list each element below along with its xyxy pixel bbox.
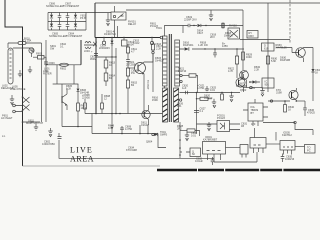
resistor R623 bbox=[221, 92, 224, 100]
regulator IC601 bbox=[203, 135, 226, 162]
svg-text:R602: R602 bbox=[60, 67, 67, 71]
diode D601 bbox=[50, 13, 53, 22]
capacitor C608 bbox=[82, 93, 90, 114]
wire AC line input step bbox=[5, 0, 23, 38]
svg-text:PK B: PK B bbox=[80, 16, 86, 20]
wire primary filter rail bbox=[95, 38, 97, 114]
label note bbox=[2, 134, 6, 138]
svg-text:164K: 164K bbox=[246, 55, 252, 59]
relay RY601 bbox=[111, 12, 136, 26]
ground cold bbox=[185, 131, 198, 141]
ground left A bbox=[18, 70, 22, 77]
capacitor C604a bbox=[58, 13, 62, 22]
svg-text:4.7: 4.7 bbox=[131, 50, 135, 54]
svg-text:SMPS: SMPS bbox=[160, 133, 168, 137]
svg-text:KTC3198: KTC3198 bbox=[126, 148, 137, 152]
svg-text:2KV: 2KV bbox=[210, 35, 215, 39]
label C634 bbox=[126, 146, 137, 153]
svg-text:1N4007x4: 1N4007x4 bbox=[104, 32, 116, 36]
svg-text:0.022: 0.022 bbox=[133, 41, 140, 45]
svg-text:0.01uF: 0.01uF bbox=[195, 159, 203, 163]
svg-text:FILTER: FILTER bbox=[43, 72, 52, 76]
wire live aux rail bbox=[45, 40, 47, 122]
svg-text:0.01: 0.01 bbox=[191, 134, 197, 138]
svg-text:470: 470 bbox=[251, 122, 256, 126]
resistor R617 bbox=[151, 42, 162, 51]
node standby out bbox=[243, 86, 252, 88]
wire photocoupler leads bbox=[197, 124, 241, 130]
svg-text:220/400V: 220/400V bbox=[99, 46, 110, 50]
svg-text:TO PREVENT: TO PREVENT bbox=[66, 34, 83, 38]
diode D604 bbox=[74, 22, 77, 31]
label R618 bbox=[198, 41, 208, 50]
wire left live rail bbox=[22, 38, 24, 166]
svg-text:0.01: 0.01 bbox=[210, 88, 216, 92]
svg-text:220/50: 220/50 bbox=[82, 96, 90, 100]
svg-text:PC123: PC123 bbox=[217, 116, 225, 120]
svg-text:RGP10G: RGP10G bbox=[183, 43, 193, 47]
capacitor C632 bbox=[195, 157, 214, 166]
box relay control bbox=[247, 31, 258, 39]
capacitor C604b bbox=[66, 13, 70, 22]
svg-text:2SC5587: 2SC5587 bbox=[126, 63, 137, 67]
label D601-604 bbox=[104, 30, 116, 37]
regulator IC604 bbox=[250, 128, 266, 153]
label T601 bbox=[156, 26, 162, 30]
svg-text:2.2K: 2.2K bbox=[156, 47, 162, 51]
svg-text:RY602: RY602 bbox=[229, 24, 237, 28]
resistor R614 bbox=[104, 71, 115, 86]
svg-text:L1.: L1. bbox=[2, 134, 6, 138]
ground C625 bbox=[205, 86, 217, 93]
svg-text:PG: PG bbox=[131, 71, 135, 75]
svg-text:1N4148: 1N4148 bbox=[80, 91, 90, 95]
wire snubber lower bbox=[91, 114, 93, 134]
label IC605 bbox=[282, 131, 292, 138]
choke L604 bbox=[84, 42, 93, 54]
capacitor C605b bbox=[66, 22, 70, 31]
wire 16V rail bbox=[179, 92, 240, 94]
capacitor C603 bbox=[44, 57, 55, 66]
resistor R612 bbox=[126, 68, 137, 80]
label C631 bbox=[241, 122, 248, 129]
wire filter riser bbox=[80, 40, 82, 65]
svg-text:470/25: 470/25 bbox=[307, 111, 315, 115]
wire top border line bbox=[95, 2, 320, 4]
svg-text:NOISE KILLER: NOISE KILLER bbox=[49, 34, 67, 38]
thermistor TH601 bbox=[29, 48, 34, 57]
label Q609 bbox=[276, 88, 282, 95]
transistor Q607 bbox=[236, 71, 248, 89]
text LIVE AREA bbox=[70, 146, 94, 164]
wire error amp riser bbox=[196, 93, 198, 134]
svg-text:1B: 1B bbox=[241, 124, 244, 128]
node isolation boundary dashed bbox=[289, 0, 291, 44]
svg-text:AREA: AREA bbox=[70, 155, 94, 164]
resistor R626 bbox=[196, 97, 212, 100]
capacitor C610 bbox=[60, 42, 67, 49]
svg-text:1uF: 1uF bbox=[182, 86, 187, 90]
wire Q609 emitter bbox=[296, 100, 306, 102]
label D620 bbox=[204, 94, 213, 101]
svg-text:EGP10: EGP10 bbox=[178, 69, 187, 73]
wire right rail bbox=[242, 40, 244, 71]
resistor R608 bbox=[101, 94, 111, 114]
svg-text:TO PREVENT: TO PREVENT bbox=[63, 4, 80, 8]
diode D613 bbox=[152, 133, 158, 136]
wire aux rail B bbox=[115, 48, 117, 114]
switch S602 interlock bbox=[93, 42, 97, 46]
degaussing coil L602 bbox=[1, 48, 14, 90]
svg-text:LINE CHOKE: LINE CHOKE bbox=[10, 87, 26, 91]
capacitor C609 bbox=[120, 125, 132, 134]
wire snubber drop bbox=[182, 26, 184, 34]
label S601 bbox=[26, 119, 43, 126]
wire interlock bbox=[22, 121, 40, 123]
svg-text:4.7/50: 4.7/50 bbox=[197, 86, 205, 90]
inductor L603 bbox=[46, 63, 81, 70]
wire bridge rail mid bbox=[48, 21, 86, 23]
capacitor C612 bbox=[122, 37, 135, 47]
transformer T601 core bbox=[169, 34, 171, 122]
connector P601 bbox=[1, 104, 23, 120]
wire chopper emitter bbox=[143, 78, 145, 114]
label C605 bbox=[49, 32, 67, 39]
wire hot rail from top border bbox=[94, 3, 96, 38]
diode D603 bbox=[50, 22, 53, 31]
diode D605 bbox=[111, 37, 114, 46]
resistor R622 bbox=[228, 48, 239, 78]
label R616 bbox=[152, 96, 159, 103]
svg-text:Q602: Q602 bbox=[240, 88, 247, 92]
svg-text:5.6K: 5.6K bbox=[271, 59, 277, 63]
label C618 bbox=[210, 33, 217, 40]
transistor Q608 bbox=[276, 48, 313, 63]
transistor Q602 bbox=[236, 74, 247, 92]
wire IC601 output bbox=[226, 147, 241, 149]
svg-text:1K: 1K bbox=[315, 71, 318, 75]
resistor R611 bbox=[126, 44, 137, 59]
svg-text:SW: SW bbox=[50, 47, 55, 51]
svg-text:619: 619 bbox=[264, 47, 269, 51]
svg-text:RGP10B: RGP10B bbox=[280, 58, 290, 62]
wire IC603 drop bbox=[256, 152, 258, 162]
wire chopper base bbox=[128, 67, 135, 69]
ground input bbox=[10, 95, 14, 105]
regulator IC602S bbox=[262, 43, 288, 51]
connector P602 bbox=[295, 145, 315, 154]
svg-text:0.0047/250: 0.0047/250 bbox=[42, 142, 55, 146]
transformer T601 secondary winding bbox=[175, 40, 180, 86]
label R632 bbox=[254, 65, 261, 72]
resistor R609 bbox=[108, 114, 115, 134]
resistor R619 bbox=[222, 23, 224, 29]
transformer T601 primary winding bbox=[163, 26, 184, 89]
fuse F601 bbox=[8, 36, 42, 44]
label C604 bbox=[66, 32, 83, 39]
resistor R630 bbox=[266, 56, 277, 64]
diode D614 bbox=[198, 24, 244, 27]
svg-text:Q604: Q604 bbox=[146, 140, 153, 144]
svg-text:C603: C603 bbox=[49, 61, 56, 65]
wire drain riser bbox=[146, 54, 153, 92]
svg-text:C2120: C2120 bbox=[141, 123, 149, 127]
capacitor C615 bbox=[133, 37, 162, 46]
regulator IC603 bbox=[240, 145, 248, 158]
ground secondary bbox=[229, 92, 233, 102]
wire degauss loop top bbox=[8, 43, 33, 52]
node secondary taps bbox=[178, 67, 187, 83]
svg-text:150K: 150K bbox=[152, 98, 158, 102]
wire bridge right vertical bbox=[85, 13, 87, 31]
wire bottom scan border thick dashed bbox=[157, 169, 320, 172]
label Q604 bbox=[146, 140, 153, 144]
svg-text:L604: L604 bbox=[84, 49, 90, 53]
wire branch legs bbox=[140, 125, 148, 134]
wire cold ground return under AREA bbox=[59, 140, 214, 158]
label SW601 bbox=[50, 44, 57, 51]
ground mid bbox=[34, 124, 38, 130]
capacitor C627 bbox=[194, 107, 206, 114]
wire 9v line bbox=[268, 100, 290, 102]
capacitor C618 bbox=[213, 48, 217, 57]
label C607 bbox=[63, 2, 80, 9]
photocoupler PC601 bbox=[217, 114, 230, 132]
wire secondary B+ line bbox=[179, 48, 244, 50]
svg-text:2200P 2KV: 2200P 2KV bbox=[184, 18, 197, 22]
label B+ output bbox=[222, 42, 228, 49]
wire aux rail A bbox=[111, 38, 113, 114]
box error detect bbox=[262, 78, 274, 88]
wire neutral rail bbox=[41, 43, 43, 122]
resistor R640 bbox=[284, 101, 295, 112]
regulator IC602 bbox=[243, 99, 268, 126]
wire standby rail bbox=[267, 3, 269, 92]
switch S601 poles bbox=[22, 96, 30, 111]
wire bridge rail bottom bbox=[48, 29, 86, 31]
label T601 flyback bbox=[160, 130, 168, 137]
node drive terminal bbox=[152, 51, 165, 62]
svg-text:C617: C617 bbox=[197, 31, 204, 35]
wire control drop bbox=[158, 134, 166, 148]
svg-text:1N4937: 1N4937 bbox=[224, 34, 234, 38]
svg-text:4.7K: 4.7K bbox=[228, 69, 234, 73]
svg-text:0.1: 0.1 bbox=[60, 45, 64, 49]
label Y601 bbox=[80, 14, 87, 21]
label D614 bbox=[197, 29, 204, 36]
capacitor C614 bbox=[91, 44, 110, 56]
svg-text:2.2K: 2.2K bbox=[254, 68, 260, 72]
wire bridge left vertical bbox=[47, 13, 49, 31]
capacitor C636 bbox=[303, 101, 315, 116]
label C621 bbox=[196, 84, 205, 94]
resistor R607 bbox=[77, 103, 88, 127]
wire aux rail C bbox=[127, 44, 129, 114]
svg-text:4.7/50: 4.7/50 bbox=[125, 127, 133, 131]
node top right circle bbox=[0, 0, 1, 1]
wire cold rail bbox=[179, 122, 181, 158]
svg-text:2R2: 2R2 bbox=[177, 127, 182, 131]
transistor Q601 bbox=[126, 54, 153, 78]
resistor R629 bbox=[242, 52, 253, 60]
wire relay box links bbox=[57, 65, 74, 84]
label R601 bbox=[150, 22, 158, 29]
diode D616 bbox=[183, 41, 193, 51]
diode D602 bbox=[74, 13, 77, 22]
svg-text:0.1: 0.1 bbox=[200, 109, 204, 113]
resistor R603 bbox=[33, 52, 46, 60]
box RL601 bbox=[53, 83, 78, 85]
capacitor C602 bbox=[58, 133, 62, 139]
svg-text:901: 901 bbox=[265, 83, 270, 87]
capacitor C613 ground bbox=[42, 128, 55, 146]
capacitor C620 bbox=[182, 84, 189, 95]
wire startup rail bbox=[240, 39, 290, 41]
svg-text:1.2K 1W: 1.2K 1W bbox=[198, 43, 208, 47]
svg-text:0.33: 0.33 bbox=[108, 126, 114, 130]
label C613 bbox=[90, 55, 97, 62]
resistor R621 bbox=[182, 74, 197, 93]
wire start bus bbox=[62, 126, 92, 128]
ground error bbox=[207, 122, 211, 131]
ground standby bbox=[252, 88, 265, 97]
svg-text:TO HOT: TO HOT bbox=[146, 80, 150, 90]
transformer T601 lower winding cold bbox=[174, 88, 179, 122]
regulator IC605 bbox=[276, 132, 295, 155]
wire 12v link bbox=[266, 143, 280, 145]
wire relay contacts down bbox=[115, 20, 118, 38]
capacitor C605a bbox=[58, 22, 62, 31]
svg-text:RGP10: RGP10 bbox=[204, 96, 213, 100]
svg-text:LIVE: LIVE bbox=[70, 146, 93, 155]
label L605 bbox=[10, 85, 26, 92]
wire bleeder tie bbox=[96, 56, 117, 57]
svg-text:RELAY: RELAY bbox=[128, 22, 136, 26]
svg-text:1K: 1K bbox=[288, 108, 291, 112]
resistor R613 bbox=[104, 57, 115, 71]
transistor Q605 bbox=[62, 84, 73, 110]
snubber C619 bbox=[183, 15, 197, 27]
resistor R628 bbox=[177, 124, 200, 136]
svg-text:DRV: DRV bbox=[249, 34, 255, 38]
ground left B bbox=[28, 66, 32, 73]
capacitor C635 bbox=[281, 154, 295, 163]
capacitor C616 bbox=[126, 60, 130, 69]
node bus terminal bbox=[160, 36, 163, 39]
wire IC601 ground tie bbox=[214, 161, 257, 163]
wire primary return bus bbox=[85, 113, 163, 115]
wire choke link bbox=[93, 44, 96, 46]
label D630 bbox=[280, 56, 290, 63]
wire relay to right rail bbox=[126, 9, 243, 11]
svg-text:PC123: PC123 bbox=[150, 24, 158, 28]
svg-text:AC INLET: AC INLET bbox=[1, 116, 13, 120]
svg-text:NOISE KILLER: NOISE KILLER bbox=[46, 4, 64, 8]
wire rectified bus bbox=[95, 37, 160, 39]
svg-text:100K: 100K bbox=[81, 106, 87, 110]
svg-text:PC: PC bbox=[307, 149, 311, 153]
ground R626 bbox=[212, 99, 216, 108]
svg-text:1000/16: 1000/16 bbox=[285, 157, 295, 161]
svg-text:450V: 450V bbox=[90, 57, 96, 61]
wire relay coil feed bbox=[114, 6, 116, 12]
svg-text:1.2K: 1.2K bbox=[66, 87, 72, 91]
wire bridge rail top bbox=[48, 12, 111, 14]
svg-text:135V: 135V bbox=[222, 44, 228, 48]
wire control bus bbox=[92, 133, 158, 135]
transformer T601 lower winding hot bbox=[163, 88, 168, 122]
svg-text:KA78R09BT: KA78R09BT bbox=[203, 138, 218, 142]
diode D606 bbox=[77, 84, 90, 103]
relay RY602 degauss bbox=[228, 24, 240, 40]
svg-text:1B1: 1B1 bbox=[177, 104, 182, 108]
node tap 9v bbox=[177, 99, 184, 108]
earth ground relay bbox=[106, 13, 110, 26]
transistor Q609 bbox=[289, 88, 298, 101]
transistor Q603 bbox=[141, 105, 150, 127]
wire mid column bbox=[61, 84, 63, 127]
resistor R615 bbox=[126, 80, 137, 92]
label D618 bbox=[224, 31, 234, 38]
svg-text:MAIN SWITCH: MAIN SWITCH bbox=[26, 121, 43, 125]
wire bottom left border bbox=[23, 165, 161, 167]
wire standby feed bbox=[312, 86, 314, 101]
varistor Z601 bbox=[102, 37, 105, 45]
diode D632 bbox=[311, 48, 320, 87]
wire low rail bbox=[263, 121, 313, 135]
label L601 line filter bbox=[43, 67, 52, 76]
svg-text:BT: BT bbox=[251, 111, 255, 115]
wire hot rail right corner bbox=[242, 10, 244, 40]
svg-text:T3.15A: T3.15A bbox=[23, 39, 32, 43]
earth ground snubber rail bbox=[209, 10, 213, 21]
diode D631 cluster bbox=[249, 80, 260, 90]
transistor Q606 bbox=[180, 148, 201, 157]
label C606 bbox=[46, 2, 64, 9]
svg-text:KIA7812: KIA7812 bbox=[282, 133, 292, 137]
svg-text:3198: 3198 bbox=[276, 91, 282, 95]
